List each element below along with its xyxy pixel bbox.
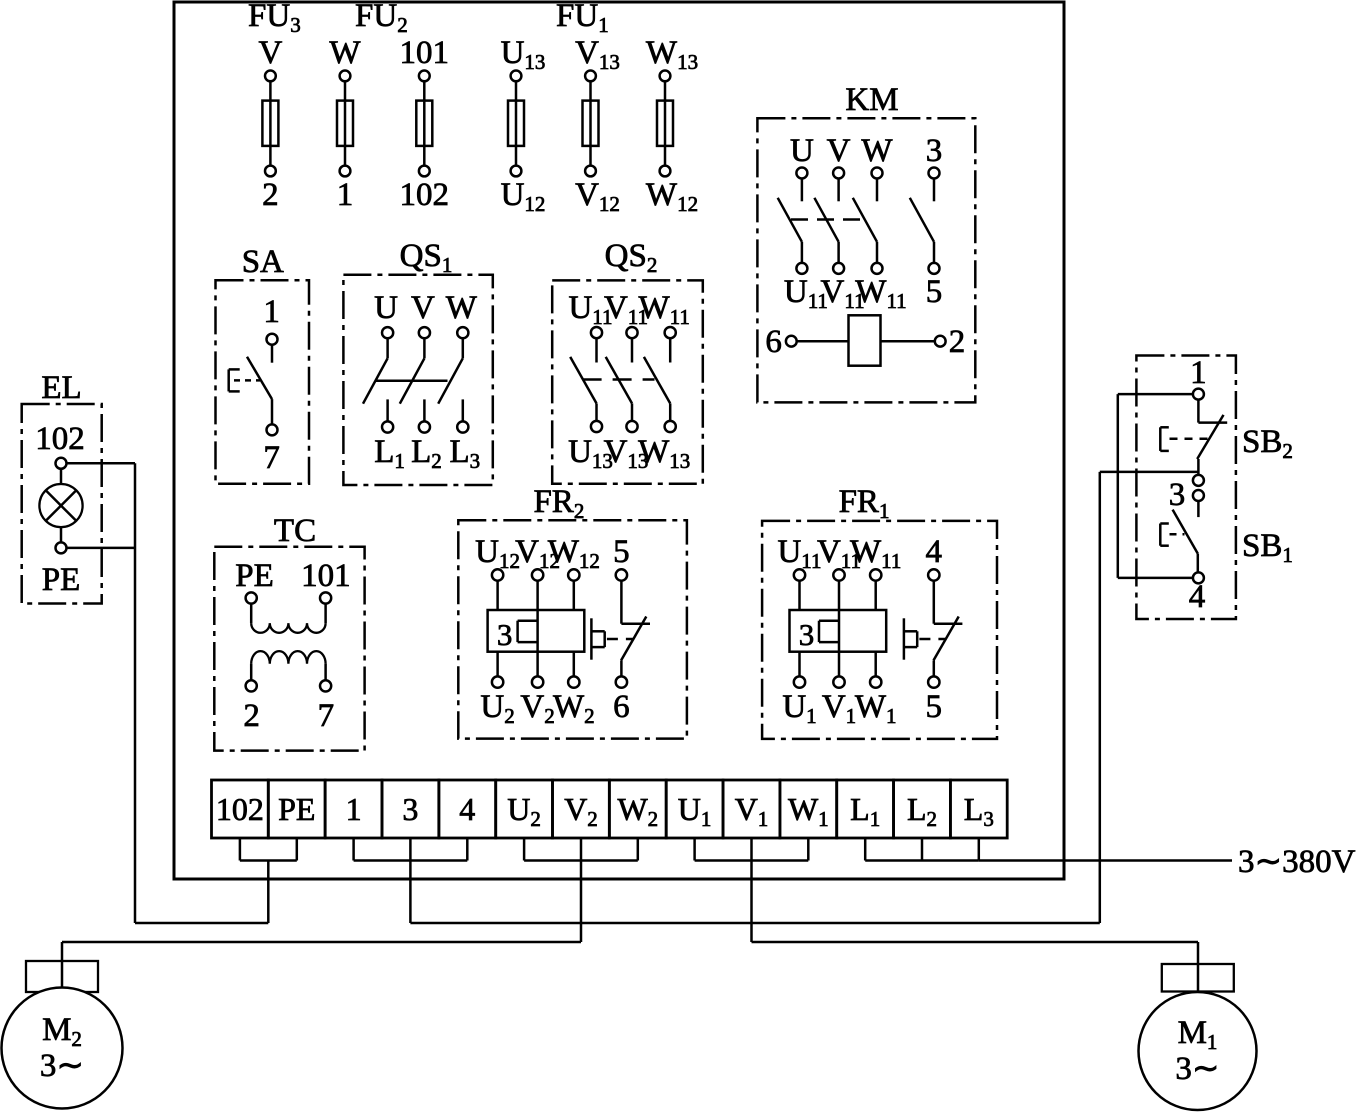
svg-text:4: 4: [459, 791, 475, 827]
svg-text:5: 5: [613, 534, 630, 570]
svg-text:6: 6: [613, 689, 630, 725]
svg-text:4: 4: [1189, 579, 1206, 615]
svg-text:W: W: [861, 133, 893, 169]
svg-text:SA: SA: [242, 244, 284, 280]
svg-text:102: 102: [216, 791, 264, 827]
svg-text:3∼: 3∼: [1175, 1051, 1219, 1087]
svg-text:1: 1: [346, 791, 362, 827]
svg-text:3: 3: [497, 617, 513, 652]
svg-text:1: 1: [337, 177, 354, 213]
svg-text:V: V: [411, 290, 435, 326]
svg-text:102: 102: [35, 421, 85, 457]
svg-text:101: 101: [301, 558, 351, 594]
svg-text:V: V: [258, 35, 282, 71]
svg-text:PE: PE: [235, 558, 274, 594]
svg-text:5: 5: [926, 274, 943, 310]
svg-text:7: 7: [263, 440, 280, 476]
svg-text:6: 6: [765, 324, 782, 360]
svg-text:3: 3: [1169, 477, 1186, 513]
svg-text:U: U: [790, 133, 814, 169]
svg-text:1: 1: [263, 294, 280, 330]
svg-text:3: 3: [402, 791, 418, 827]
svg-text:EL: EL: [41, 370, 81, 406]
svg-text:101: 101: [400, 35, 450, 71]
svg-text:V: V: [827, 133, 851, 169]
svg-text:TC: TC: [274, 513, 316, 549]
svg-text:KM: KM: [845, 82, 898, 118]
svg-text:U: U: [374, 290, 398, 326]
svg-text:PE: PE: [42, 562, 81, 598]
svg-text:2: 2: [949, 324, 966, 360]
svg-text:W: W: [446, 290, 478, 326]
svg-text:3∼380V: 3∼380V: [1238, 844, 1356, 880]
svg-text:1: 1: [1190, 355, 1207, 391]
svg-text:3∼: 3∼: [40, 1048, 84, 1084]
svg-text:W: W: [329, 35, 361, 71]
svg-text:2: 2: [243, 698, 260, 734]
svg-text:3: 3: [799, 617, 815, 652]
svg-text:PE: PE: [278, 791, 315, 827]
svg-text:5: 5: [926, 689, 943, 725]
svg-text:102: 102: [400, 177, 450, 213]
svg-text:4: 4: [926, 534, 943, 570]
svg-text:2: 2: [262, 177, 279, 213]
svg-text:7: 7: [318, 698, 335, 734]
svg-text:3: 3: [926, 133, 943, 169]
